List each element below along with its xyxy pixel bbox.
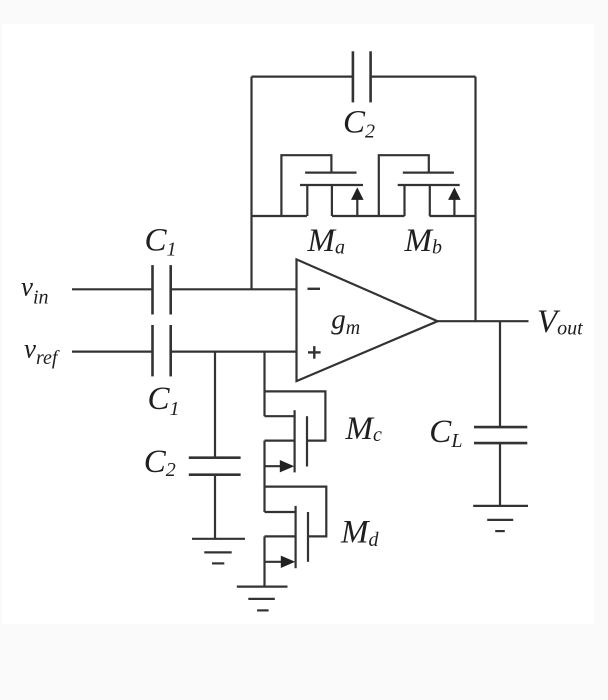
wire top feedback right segment bbox=[371, 75, 476, 77]
ground (right, under CL) bbox=[473, 506, 528, 531]
svg-text:Mc: Mc bbox=[345, 411, 383, 447]
wire rail segment A (node: minus input) bbox=[252, 215, 307, 217]
svg-text:Mb: Mb bbox=[404, 223, 443, 259]
transistor Ma bbox=[281, 155, 363, 216]
transistor Mc bbox=[265, 391, 326, 486]
svg-text:vref: vref bbox=[24, 334, 60, 369]
capacitor C2 bottom plates bbox=[189, 458, 241, 475]
wire tap down to C2 bottom bbox=[214, 352, 216, 458]
wire rail segment C (node: output) bbox=[430, 215, 476, 217]
capacitor C2 top plates bbox=[353, 51, 371, 102]
wire top feedback left segment bbox=[252, 75, 353, 77]
wire output bbox=[438, 320, 529, 322]
op-amp minus sign bbox=[308, 288, 321, 290]
capacitor C1 lower plates bbox=[153, 325, 171, 376]
op-amp U1 triangle bbox=[297, 259, 438, 381]
wire feedback left vertical bbox=[250, 77, 252, 290]
wire v_ref input right (to plus input) bbox=[171, 351, 297, 353]
wire v_in input right (to minus input) bbox=[171, 288, 297, 290]
wire rail segment B (node between Ma and Mb) bbox=[332, 215, 405, 217]
op-amp plus sign bbox=[308, 351, 321, 353]
svg-text:C1: C1 bbox=[145, 222, 177, 260]
svg-text:C2: C2 bbox=[144, 444, 176, 481]
ground (bottom, under Md) bbox=[237, 587, 288, 611]
wire CL to ground bbox=[499, 443, 501, 506]
capacitor CL plates bbox=[474, 427, 527, 443]
svg-text:C1: C1 bbox=[148, 381, 180, 420]
transistor Mb bbox=[379, 155, 461, 216]
svg-text:C2: C2 bbox=[343, 104, 375, 142]
wire tap down to CL bbox=[499, 321, 501, 427]
svg-text:gm: gm bbox=[331, 303, 360, 339]
wire v_ref input left bbox=[72, 351, 153, 353]
svg-text:Md: Md bbox=[340, 514, 380, 551]
wire tap down to Mc bbox=[263, 352, 265, 392]
capacitor C1 upper plates bbox=[153, 265, 171, 314]
svg-text:vin: vin bbox=[21, 271, 49, 308]
transistor Md bbox=[265, 487, 327, 587]
wire C2 bottom to ground bbox=[214, 475, 216, 539]
svg-text:Ma: Ma bbox=[307, 223, 346, 259]
wire feedback right vertical bbox=[474, 77, 476, 322]
wire v_in input left bbox=[72, 288, 153, 290]
svg-text:Vout: Vout bbox=[537, 304, 583, 340]
ground (left, under C2) bbox=[192, 539, 245, 564]
svg-text:CL: CL bbox=[429, 414, 462, 452]
